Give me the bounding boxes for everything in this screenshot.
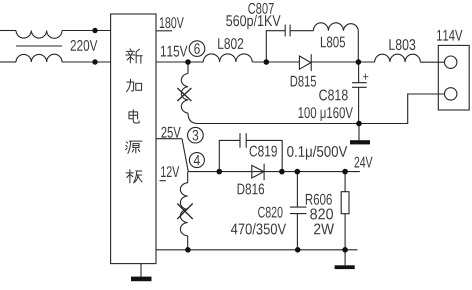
label 114V	[437, 30, 462, 41]
label L803	[389, 39, 415, 50]
wire: 115V return bus	[196, 94, 445, 124]
label 115V	[161, 46, 188, 57]
label C807	[248, 3, 273, 14]
label 820	[310, 209, 333, 220]
label L802	[218, 38, 243, 49]
label D816	[238, 184, 265, 195]
wire: 180V stub	[156, 30, 172, 32]
wire: C820 branch	[296, 172, 298, 208]
ground bar at C818	[350, 140, 370, 144]
wire: D815 to L803	[311, 61, 375, 63]
wire: bottom lead to board	[62, 61, 111, 63]
wire: L803 to connector	[420, 61, 444, 63]
dash under 12V	[160, 180, 166, 182]
wire: diagonal jumper 25V to 12V rail	[182, 139, 188, 172]
node: bus/C818 junction	[356, 121, 362, 127]
wire: board ground stub	[140, 264, 142, 277]
label 470/350V	[231, 223, 286, 234]
node: C807/D815 junction	[264, 59, 270, 65]
node: C820 bottom junction	[295, 247, 301, 253]
label C820	[258, 207, 283, 218]
wire: bottom ground bus	[156, 249, 358, 251]
ground bar under board	[131, 277, 152, 282]
wire: C819 right side down	[246, 140, 282, 171]
label 2W	[314, 224, 334, 235]
wire: R606 branch top	[344, 172, 346, 192]
wire: junction drop from 115V node	[187, 62, 189, 74]
node: top lead dot	[92, 28, 97, 33]
circled 3	[188, 127, 204, 143]
label plus sign	[363, 74, 368, 80]
resistor R606	[341, 192, 349, 214]
node: R606 top junction	[342, 169, 348, 175]
label R606	[306, 194, 332, 205]
transformer T1 primary winding (top coil)	[16, 31, 62, 39]
label 24V	[355, 157, 373, 168]
wire: L802 to D815	[252, 61, 299, 63]
wire: 115V line from board	[156, 61, 203, 63]
label 560p/1KV	[226, 15, 280, 29]
wire: top lead to board	[62, 30, 111, 32]
node: 115V junction	[185, 59, 191, 65]
inductor L802	[203, 54, 252, 62]
inductor (removed) vertical coil 2	[187, 172, 189, 183]
node: D815 out junction	[356, 59, 362, 65]
wire: L805 down to node	[357, 31, 359, 62]
wire: ground stub right	[344, 250, 346, 266]
inductor L805	[313, 23, 358, 31]
node: coil2 bottom junction	[185, 247, 191, 253]
label L805	[321, 37, 345, 48]
wire: AC input bottom lead	[0, 61, 16, 63]
ground bar at bottom right	[335, 265, 355, 269]
wire: ground stub at C818	[358, 124, 360, 141]
X mark over coil 2	[177, 204, 192, 220]
capacitor C818	[352, 83, 367, 88]
wire: C807 to L805	[290, 30, 313, 32]
node: bottom lead dot	[92, 59, 97, 64]
wire: C807 branch riser	[266, 31, 285, 62]
node: C820 top junction	[295, 169, 301, 175]
diode D815	[299, 56, 311, 69]
digit 3	[193, 130, 199, 141]
capacitor C807	[285, 25, 290, 37]
inductor (removed) vertical coil 1	[181, 74, 188, 114]
wire: C818 to bus	[358, 87, 360, 123]
digit 4	[194, 155, 200, 165]
diode D816	[252, 165, 264, 178]
power supply board box	[111, 14, 156, 264]
glyph Yuan	[126, 141, 142, 153]
label 12V	[161, 166, 179, 177]
digit 6	[194, 43, 200, 54]
connector J1 114V	[438, 45, 469, 110]
wire: 12V / 24V rail	[188, 171, 359, 173]
Chinese board label (hand-drawn glyphs)	[126, 49, 143, 183]
glyph Ban	[126, 170, 142, 183]
glyph Dian	[129, 110, 139, 123]
node: R606 bottom junction	[342, 247, 348, 253]
wire: AC input top lead	[0, 30, 16, 32]
label C819	[250, 146, 277, 157]
node: C819 right junction	[279, 169, 285, 175]
node: C819 left junction	[217, 169, 223, 175]
transformer T1 core	[16, 45, 62, 47]
capacitor C819	[240, 133, 246, 148]
glyph Jia	[126, 79, 141, 92]
glyph Xin	[126, 49, 143, 63]
label D815	[291, 76, 316, 87]
label 0.1u/500V	[287, 146, 347, 160]
transformer T1 secondary winding (bottom coil)	[16, 54, 62, 62]
label 180V	[160, 17, 184, 28]
X mark over coil 1	[177, 88, 191, 101]
label 220V	[71, 40, 98, 51]
wire: 25V stub	[156, 138, 182, 140]
inductor L803	[375, 54, 421, 62]
label 100u160V	[299, 107, 353, 121]
circled 6	[189, 41, 205, 57]
label 25V	[161, 127, 180, 138]
circled 4	[189, 153, 204, 168]
wire: node to C818	[358, 62, 360, 83]
capacitor C820	[290, 207, 307, 214]
label C818	[319, 90, 348, 101]
wire: C819 branch left riser	[219, 140, 240, 171]
